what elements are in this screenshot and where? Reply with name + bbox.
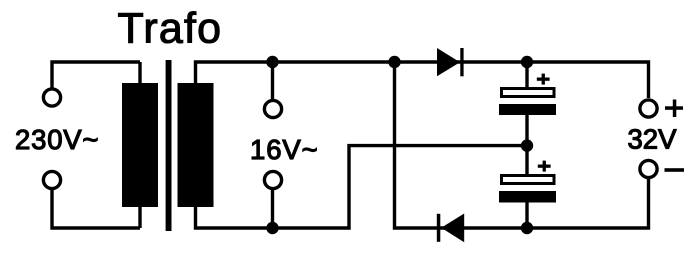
- svg-text:16V~: 16V~: [250, 134, 319, 165]
- svg-text:32V: 32V: [628, 124, 678, 155]
- svg-text:Trafo: Trafo: [118, 4, 223, 52]
- svg-text:230V~: 230V~: [15, 124, 99, 155]
